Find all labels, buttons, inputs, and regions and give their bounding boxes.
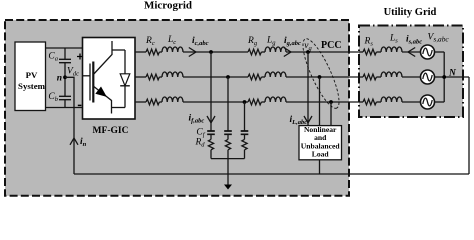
wire: source a to bus xyxy=(435,51,445,53)
wire: filter branch b vertical xyxy=(227,77,229,131)
microgrid dashed boundary box xyxy=(5,20,349,196)
capacitor Ca xyxy=(59,59,71,62)
wire: phase c to source xyxy=(402,101,420,103)
resistor Rs phase b xyxy=(363,74,376,80)
resistor Rc phase b xyxy=(146,74,159,80)
resistor Rd phase a xyxy=(210,134,212,139)
ground arrow xyxy=(224,185,232,190)
svg-text:N: N xyxy=(448,69,457,79)
svg-text:PCC: PCC xyxy=(321,40,342,51)
wire: phase a line (converter to grid) xyxy=(135,51,146,53)
wire: phase c segment to utility xyxy=(286,101,359,103)
node n xyxy=(63,75,67,79)
inductor Lg phase c xyxy=(261,101,265,103)
resistor Rc phase c xyxy=(146,99,159,105)
wire: neutral bus bottom xyxy=(74,173,469,175)
utility grid dash-dot boundary box xyxy=(359,26,463,118)
wire: load neutral drop xyxy=(319,160,321,174)
wire: branch c to star bar xyxy=(244,150,246,159)
wire: filter ground stem xyxy=(227,159,229,186)
wire: PCC drop b to load xyxy=(319,77,321,126)
resistor Rd phase c xyxy=(244,134,246,139)
node filter tap phase a xyxy=(209,50,213,54)
resistor Rs phase c xyxy=(363,99,376,105)
wire: leg top rail xyxy=(112,49,125,51)
inductor Lc phase a xyxy=(159,51,162,53)
wire: phase b line (converter to grid) xyxy=(135,76,146,78)
PV System block xyxy=(15,42,46,111)
wire: filter star bar xyxy=(211,158,245,160)
wire: source b to bus xyxy=(435,76,445,78)
inductor Lc phase c xyxy=(159,101,162,103)
wire: phase b middle segment xyxy=(183,76,248,78)
svg-text:n: n xyxy=(57,74,62,84)
transistor IGBT xyxy=(94,41,112,74)
wire: filter branch c vertical xyxy=(244,102,246,131)
resistor Rg phase b xyxy=(248,74,261,80)
wire: n to neutral bus xyxy=(65,77,74,174)
wire: leg bottom rail xyxy=(112,107,126,109)
inductor Ls phase c xyxy=(376,101,381,103)
wire: DC- rail xyxy=(46,107,83,109)
wire: utility phase b entry xyxy=(359,76,363,78)
inductor Lg phase b xyxy=(261,76,265,78)
capacitor Cf phase b xyxy=(224,131,232,134)
svg-text:System: System xyxy=(18,81,46,91)
resistor Rc phase a xyxy=(146,49,159,55)
wire: phase c line (converter to grid) xyxy=(135,101,146,103)
wire: capacitor branch xyxy=(64,48,66,108)
wire: N to riser xyxy=(444,76,469,78)
resistor Rd phase b xyxy=(227,134,229,139)
wire: source bus xyxy=(443,52,445,102)
wire: utility phase c entry xyxy=(359,101,363,103)
wire: phase a to source xyxy=(402,51,420,53)
wire: PCC drop a to load xyxy=(307,52,309,126)
svg-text:Load: Load xyxy=(312,150,330,159)
capacitor Cf phase c xyxy=(241,131,249,134)
wire: filter branch a vertical xyxy=(210,52,212,131)
converter MF-GIC block xyxy=(83,38,136,120)
svg-text:MF-GIC: MF-GIC xyxy=(93,126,129,136)
wire: neutral riser right xyxy=(468,77,470,174)
inductor Ls phase b xyxy=(376,76,381,78)
label + xyxy=(77,54,83,60)
wire: phase b to source xyxy=(402,76,420,78)
label in with arrow xyxy=(70,138,78,145)
wire: phase c middle segment xyxy=(183,101,248,103)
wire: phase a segment to utility xyxy=(286,51,359,53)
svg-text:PV: PV xyxy=(26,70,38,80)
wire: PCC drop c to load xyxy=(330,102,332,126)
AC source Vs phase b xyxy=(421,70,435,84)
label - xyxy=(78,104,82,106)
node PCC tap phase b xyxy=(318,75,322,79)
load block Nonlinear and Unbalanced Load xyxy=(299,126,342,160)
svg-text:Utility Grid: Utility Grid xyxy=(384,7,437,18)
capacitor Cb xyxy=(59,96,71,99)
diode (freewheel) xyxy=(124,50,126,108)
PCC dashed ellipse xyxy=(297,35,346,112)
wire: phase b segment to utility xyxy=(286,76,359,78)
node filter tap phase c xyxy=(243,100,247,104)
svg-text:Vs,abc: Vs,abc xyxy=(428,33,450,44)
node PCC tap phase a xyxy=(306,50,310,54)
wire: branch b to star bar xyxy=(227,150,229,159)
resistor Rs phase a xyxy=(363,49,376,55)
inductor Ls phase a xyxy=(376,51,381,53)
node N xyxy=(442,75,446,79)
inductor Lc phase b xyxy=(159,76,162,78)
resistor Rg phase c xyxy=(248,99,261,105)
wire: utility phase a entry xyxy=(359,51,363,53)
AC source Vs phase c xyxy=(421,95,435,109)
resistor Rg phase a xyxy=(248,49,261,55)
node filter tap phase b xyxy=(226,75,230,79)
wire: phase a middle segment xyxy=(183,51,248,53)
wire: source c to bus xyxy=(435,101,445,103)
wire: DC+ rail xyxy=(46,47,83,49)
svg-text:Microgrid: Microgrid xyxy=(144,0,192,12)
node PCC tap phase c xyxy=(329,100,333,104)
capacitor Cf phase a xyxy=(207,131,215,134)
inductor Lg phase a xyxy=(261,51,265,53)
wire: branch a to star bar xyxy=(210,150,212,159)
AC source Vs phase a xyxy=(421,45,435,59)
